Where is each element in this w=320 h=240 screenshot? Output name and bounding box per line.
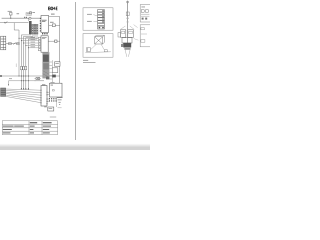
unit mark (52, 90, 54, 91)
inline box (17, 42, 19, 44)
V48 top label (42, 84, 45, 85)
component on wire (52, 24, 55, 27)
module text (42, 20, 47, 22)
bus vertical 3 (23, 36, 25, 88)
leader 2 (93, 20, 97, 22)
left drop wire (8, 81, 10, 85)
wire module2 right (48, 40, 60, 42)
pin dots row 2 (49, 100, 57, 101)
bottom connector (1, 88, 6, 96)
ladder wire 1 (6, 89, 41, 90)
wire top rail 1 (2, 17, 40, 19)
table row 1 (3, 126, 51, 127)
box text (55, 62, 58, 65)
component on wire (55, 40, 57, 42)
module bottom pins (42, 33, 48, 34)
bundle corner dark (46, 77, 49, 80)
bracket mark (15, 64, 17, 68)
bus label (9, 77, 12, 80)
right figure box 2 (140, 25, 152, 47)
leader right (130, 26, 134, 29)
connector strip T16 dark (29, 21, 32, 34)
switch contact (4, 21, 7, 23)
module text (42, 37, 47, 39)
dark base block (123, 43, 131, 48)
page divider (75, 2, 77, 140)
bundle mid section (43, 63, 49, 69)
base side mark (121, 44, 123, 47)
caption line 1 (83, 59, 88, 62)
bus vertical 4 (25, 38, 27, 89)
stack bottom cell (98, 26, 105, 29)
inline switch (13, 42, 15, 44)
fuse S228 (10, 12, 12, 18)
branch wire 5 (28, 47, 38, 49)
bus vertical 2 (20, 35, 22, 89)
floor detail (104, 50, 107, 52)
second bus horizontal (9, 80, 37, 82)
table row 3 (3, 132, 50, 133)
module J527 (41, 36, 48, 52)
figure 2 frame (83, 34, 113, 58)
branch labels (31, 37, 36, 47)
shaft tie 1 (126, 17, 129, 20)
bus junction dots (19, 75, 53, 76)
fig1 label 1 (87, 13, 92, 16)
control unit box (50, 83, 63, 97)
branch wire 1 (19, 37, 38, 39)
tap bracket (50, 60, 53, 82)
cube leader left (90, 44, 96, 50)
relay cube (95, 35, 105, 44)
inline fuse (9, 43, 12, 45)
table header (30, 122, 52, 123)
resistor on bus 3 (23, 66, 25, 69)
branch dots (19, 38, 29, 49)
ladder wire 2 (6, 91, 41, 93)
floor line (85, 51, 110, 54)
resistor on bus 2 (21, 66, 23, 69)
unit inner label (51, 85, 53, 86)
wire staircase (14, 18, 37, 39)
fuse S228 label (8, 10, 12, 13)
box cluster (52, 68, 58, 73)
dark component (52, 75, 55, 78)
cube leader right (101, 44, 104, 49)
leader left (120, 26, 125, 29)
main bus horizontal (0, 75, 60, 77)
box1 text (141, 6, 145, 9)
second bus dots (21, 80, 29, 81)
housing left inner (122, 31, 125, 33)
taper right (128, 48, 130, 57)
module pins (40, 18, 41, 32)
wire module right 2 (49, 24, 60, 26)
wire label 2 (50, 22, 54, 23)
connector block left (1, 36, 6, 50)
module pin connectors (38, 37, 40, 51)
node label (32, 11, 35, 14)
right rail (59, 17, 61, 97)
pin stub wires (40, 38, 42, 50)
wire label (51, 14, 55, 15)
relay coil circle (29, 11, 32, 14)
ground tail mark (58, 107, 62, 109)
ladder wire 5 (6, 95, 41, 100)
drop tick (8, 84, 9, 85)
mid leader (134, 39, 139, 41)
wire top rail 2 (0, 22, 28, 24)
bus vertical 1 (18, 30, 20, 76)
connector hatch (1, 90, 6, 94)
branch wire 2 (21, 40, 38, 42)
housing right inner (129, 31, 133, 33)
box2 wire (141, 33, 147, 35)
branch wire 3 (24, 42, 39, 44)
harness bundle (42, 52, 49, 78)
bundle dark section (43, 55, 49, 62)
wire module right top (49, 16, 60, 18)
leader 1 (93, 15, 97, 16)
side tab (118, 33, 121, 37)
figure 1 frame (83, 8, 113, 30)
resistor on bus 4 (25, 66, 27, 69)
box1 pins (142, 18, 148, 20)
unit label (50, 81, 54, 84)
ladder wire 4 (6, 94, 41, 98)
label box F23 (26, 13, 32, 16)
ground (57, 98, 63, 105)
bus vertical 5 (27, 39, 29, 88)
bundle hatch (43, 71, 49, 78)
branch wire 4 (26, 44, 39, 46)
drop wire (56, 99, 58, 107)
box to unit wires (48, 92, 50, 101)
box1 wires (141, 14, 149, 16)
box E45 (55, 62, 60, 66)
bottom gray band (0, 144, 150, 150)
wire lateral (34, 80, 44, 82)
V48 right pins (47, 92, 48, 105)
bottom box (48, 107, 54, 111)
module J519 (41, 16, 49, 33)
bottom cell pins (99, 27, 104, 28)
bottom gray solid (0, 147, 150, 150)
shaft knob (127, 1, 129, 3)
label text (27, 12, 31, 15)
bracket on floor (86, 48, 90, 52)
box2 mark 2 (141, 40, 145, 43)
component tall box V48 (41, 86, 47, 107)
table frame (2, 121, 57, 135)
shaft tie 2 (127, 21, 129, 24)
twin inline squares (34, 78, 41, 80)
taper left (125, 48, 127, 57)
box1 parts (141, 10, 148, 12)
base lower mark (124, 48, 130, 50)
wire ticks (24, 17, 27, 18)
V48 left pins (41, 90, 42, 104)
stack marks (102, 10, 104, 22)
housing right (128, 30, 134, 38)
caption line 2 (83, 61, 96, 64)
inline round connector (29, 17, 31, 19)
wire from block (6, 43, 19, 45)
fuse stack (98, 10, 105, 26)
junction dot (10, 18, 11, 19)
bottom box text (49, 107, 53, 110)
leader to right (134, 25, 138, 28)
housing base (122, 38, 132, 43)
box2 mark 1 (141, 28, 144, 30)
vertical terminal ticks (21, 88, 29, 89)
housing left (121, 30, 126, 38)
ladder wire 6 (6, 96, 41, 102)
pin grid (32, 24, 38, 34)
left edge stub (0, 75, 2, 76)
shaft detail (126, 12, 129, 16)
right figure box 1 (140, 5, 152, 22)
page background (0, 0, 150, 150)
pin dots row 1 (49, 98, 57, 99)
fig1 label 2 (87, 20, 92, 23)
table row 2 (3, 129, 49, 130)
ladder wire 3 (6, 92, 41, 95)
table note (50, 117, 56, 118)
title B04E (48, 7, 57, 10)
shift lever shaft (127, 1, 129, 44)
tiny label (17, 13, 20, 14)
bottom box label (44, 105, 47, 108)
